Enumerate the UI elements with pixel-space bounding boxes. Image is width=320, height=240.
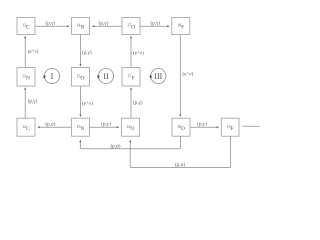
wire arrow 14N -> 15O (p,g) down: [79, 35, 81, 66]
wire arrow 13N -> 13C (e+nu) up: [24, 36, 26, 67]
wire arrow 17F -> 17O (e+nu) up: [130, 36, 132, 67]
box 12C (bottom row): [17, 118, 35, 136]
wire return 19F -> 16O (p,a) outer path: [130, 136, 230, 167]
svg-text:(p,α): (p,α): [175, 161, 185, 168]
box 15N (bottom row): [72, 118, 90, 136]
wire arrow 18F -> 18O (e+nu) long down: [179, 35, 181, 117]
svg-text:15N: 15N: [77, 125, 85, 132]
box 16O (bottom row): [122, 118, 140, 136]
svg-text:13N: 13N: [22, 74, 30, 81]
svg-text:(p,γ): (p,γ): [197, 121, 207, 128]
cycle circle II: [98, 68, 113, 83]
svg-text:14N: 14N: [77, 24, 85, 31]
cycle II rotation arrowhead: [97, 75, 100, 79]
svg-text:15O: 15O: [77, 74, 85, 81]
svg-text:II: II: [103, 72, 109, 81]
roman numerals: [51, 72, 163, 81]
wire arrow 15O -> 15N (e+nu) down: [79, 86, 81, 116]
svg-text:III: III: [154, 72, 162, 81]
svg-text:(e⁺ν): (e⁺ν): [182, 71, 193, 78]
box 17O (top row): [122, 18, 140, 35]
svg-text:(p,γ): (p,γ): [45, 19, 55, 26]
wire arrow 13C -> 14N (p,g): [36, 25, 70, 27]
svg-text:(e⁺ν): (e⁺ν): [133, 50, 144, 57]
wire arrow 18O -> 19F (p,g): [191, 126, 219, 128]
svg-text:18F: 18F: [177, 24, 184, 31]
box 13C (top row): [17, 18, 35, 35]
box 13N (middle row): [17, 68, 35, 86]
wire arrow 15N -> 12C (p,a) leftward: [38, 126, 71, 128]
svg-text:19F: 19F: [227, 125, 234, 132]
wire arrow 17O -> 18F (p,g): [141, 25, 170, 27]
svg-text:(p,γ): (p,γ): [101, 120, 111, 127]
box 14N (top row): [72, 18, 90, 35]
box 19F (bottom row): [221, 118, 239, 136]
svg-text:(p,γ): (p,γ): [133, 99, 143, 106]
svg-text:17F: 17F: [128, 74, 135, 81]
svg-text:12C: 12C: [22, 125, 30, 132]
box 18F (top row): [172, 18, 190, 35]
cycle III rotation arrowhead: [150, 75, 153, 79]
wire arrow 15N -> 16O (p,g): [90, 126, 119, 128]
nuclide labels: [22, 24, 234, 132]
wire 19F right extension: [242, 125, 259, 127]
wire arrow 16O -> 17F (p,g) up: [130, 88, 132, 118]
svg-text:13C: 13C: [22, 24, 30, 31]
wire return 18O -> 15N (p,a) inner path: [80, 136, 180, 148]
box 15O (middle row): [72, 68, 90, 86]
svg-text:(p,γ): (p,γ): [99, 19, 109, 26]
wire arrow 17O -> 14N (p,g) leftward: [93, 25, 122, 27]
svg-text:(e⁺ν): (e⁺ν): [28, 48, 39, 55]
svg-text:(p,γ): (p,γ): [28, 97, 38, 104]
cycle circle I: [44, 68, 59, 83]
svg-text:(p,γ): (p,γ): [82, 49, 92, 56]
svg-text:(p,γ): (p,γ): [150, 19, 160, 26]
svg-text:(e⁺ν): (e⁺ν): [82, 100, 93, 107]
reaction labels: [28, 19, 207, 168]
svg-text:18O: 18O: [177, 125, 185, 132]
box 17F (middle row): [122, 68, 140, 86]
svg-text:17O: 17O: [127, 24, 135, 31]
wire arrow 12C -> 13N (p,g) up: [24, 88, 26, 118]
cycle I rotation arrowhead: [43, 75, 46, 79]
svg-text:I: I: [51, 72, 54, 81]
cycle circle III: [151, 68, 166, 83]
svg-text:(p,α): (p,α): [45, 120, 55, 127]
box 18O (bottom row): [172, 118, 190, 136]
svg-text:16O: 16O: [127, 125, 135, 132]
svg-text:(p,α): (p,α): [110, 143, 120, 150]
